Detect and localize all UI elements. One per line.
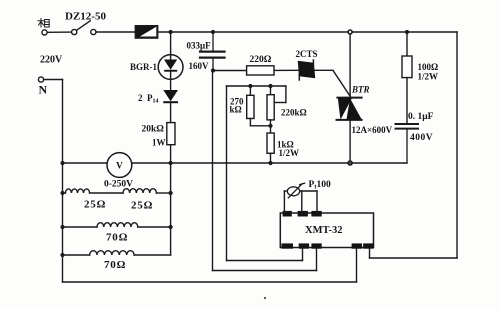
XMT top pads xyxy=(283,211,322,217)
node: cap top junction xyxy=(211,30,215,34)
node: cap bottom junction xyxy=(211,68,215,72)
diac 2CTS xyxy=(298,60,316,80)
svg-text:25Ω: 25Ω xyxy=(84,199,106,211)
heater row 2: 70R xyxy=(63,223,171,227)
node: junctions on lower rail xyxy=(60,161,272,165)
resistor 100R branch xyxy=(402,32,412,123)
node: triac top junction xyxy=(348,30,352,34)
heater row 1: 25R + 25R xyxy=(63,189,171,193)
svg-text:0. 1μF: 0. 1μF xyxy=(408,112,434,122)
svg-text:25Ω: 25Ω xyxy=(131,200,153,212)
svg-text:BTR: BTR xyxy=(351,85,370,95)
svg-text:2 P14: 2 P14 xyxy=(138,93,159,105)
wire: lower main rail xyxy=(63,162,408,164)
wire: BGR chain vertical xyxy=(170,32,172,163)
svg-text:DZ12-50: DZ12-50 xyxy=(65,10,106,22)
wire: cap node down to XMT pad3 xyxy=(213,71,317,271)
sensor Pt100 xyxy=(287,183,304,198)
speck xyxy=(264,297,266,299)
terminal: N input xyxy=(38,77,43,82)
svg-text:1/2W: 1/2W xyxy=(418,72,439,82)
capacitor 033uF xyxy=(200,32,225,71)
svg-text:033μF: 033μF xyxy=(187,40,212,50)
svg-text:0-250V: 0-250V xyxy=(104,180,133,190)
wire: Pt100 leads xyxy=(284,191,317,213)
svg-text:kΩ: kΩ xyxy=(230,105,242,115)
resistor 1k xyxy=(267,133,274,163)
wire: trigger network top (y=86) xyxy=(227,86,286,103)
wire: heater right rail xyxy=(170,163,172,255)
resistor 270k xyxy=(247,86,271,126)
svg-text:400V: 400V xyxy=(410,133,433,143)
wire: bottom rail xyxy=(63,248,357,283)
svg-text:220kΩ: 220kΩ xyxy=(281,107,307,117)
svg-text:160V: 160V xyxy=(189,61,210,71)
resistor 220R xyxy=(247,66,274,75)
node: triac bottom junction xyxy=(348,161,352,165)
node: 270k/220k bottom junction xyxy=(268,124,272,128)
svg-text:1W: 1W xyxy=(152,138,166,148)
switch DZ12-50 xyxy=(72,21,96,35)
svg-text:Pt100: Pt100 xyxy=(309,180,331,191)
svg-text:XMT-32: XMT-32 xyxy=(305,225,343,236)
wire: top rail xyxy=(96,31,457,33)
label 相 (phase) xyxy=(38,19,49,28)
controller XMT-32 xyxy=(280,213,373,248)
svg-text:70Ω: 70Ω xyxy=(104,259,126,271)
svg-text:100Ω: 100Ω xyxy=(418,62,439,72)
triac BTR xyxy=(337,98,362,120)
resistor 20k xyxy=(167,123,175,145)
node: fuse output junction xyxy=(169,30,173,34)
svg-text:N: N xyxy=(39,83,48,97)
svg-text:2CTS: 2CTS xyxy=(296,49,318,59)
diode 2P14 xyxy=(163,90,178,103)
svg-text:20kΩ: 20kΩ xyxy=(142,125,165,135)
wire: trigger network down to XMT pad2 xyxy=(227,86,303,261)
fuse xyxy=(135,26,157,38)
wire: right rail xyxy=(370,32,458,258)
voltmeter V xyxy=(107,153,132,178)
wire: triac branch xyxy=(349,32,351,163)
wire: N / left rail xyxy=(44,80,63,283)
svg-text:220V: 220V xyxy=(40,54,63,65)
node: heater right rail junctions xyxy=(169,191,173,229)
resistor 220k xyxy=(267,86,274,133)
svg-text:70Ω: 70Ω xyxy=(106,232,128,244)
node: 100R top junction xyxy=(405,30,409,34)
node: left rail junctions xyxy=(60,191,64,257)
svg-text:V: V xyxy=(116,162,123,172)
terminal: phase input xyxy=(42,30,47,35)
XMT bottom pads xyxy=(282,243,374,248)
svg-text:12A×600V: 12A×600V xyxy=(352,125,393,135)
svg-text:1/2W: 1/2W xyxy=(279,148,300,158)
svg-text:BGR-1: BGR-1 xyxy=(130,62,158,72)
wire: 220R row xyxy=(213,70,350,96)
heater row 3: 70R xyxy=(63,251,171,255)
node: 270k top junction xyxy=(248,84,252,88)
wire phase to switch xyxy=(47,31,71,33)
capacitor 0.1uF xyxy=(396,124,419,163)
svg-text:220Ω: 220Ω xyxy=(250,55,272,65)
regulator BGR-1 (diode in circle) xyxy=(158,55,183,80)
node: 220k top junction xyxy=(268,84,272,88)
